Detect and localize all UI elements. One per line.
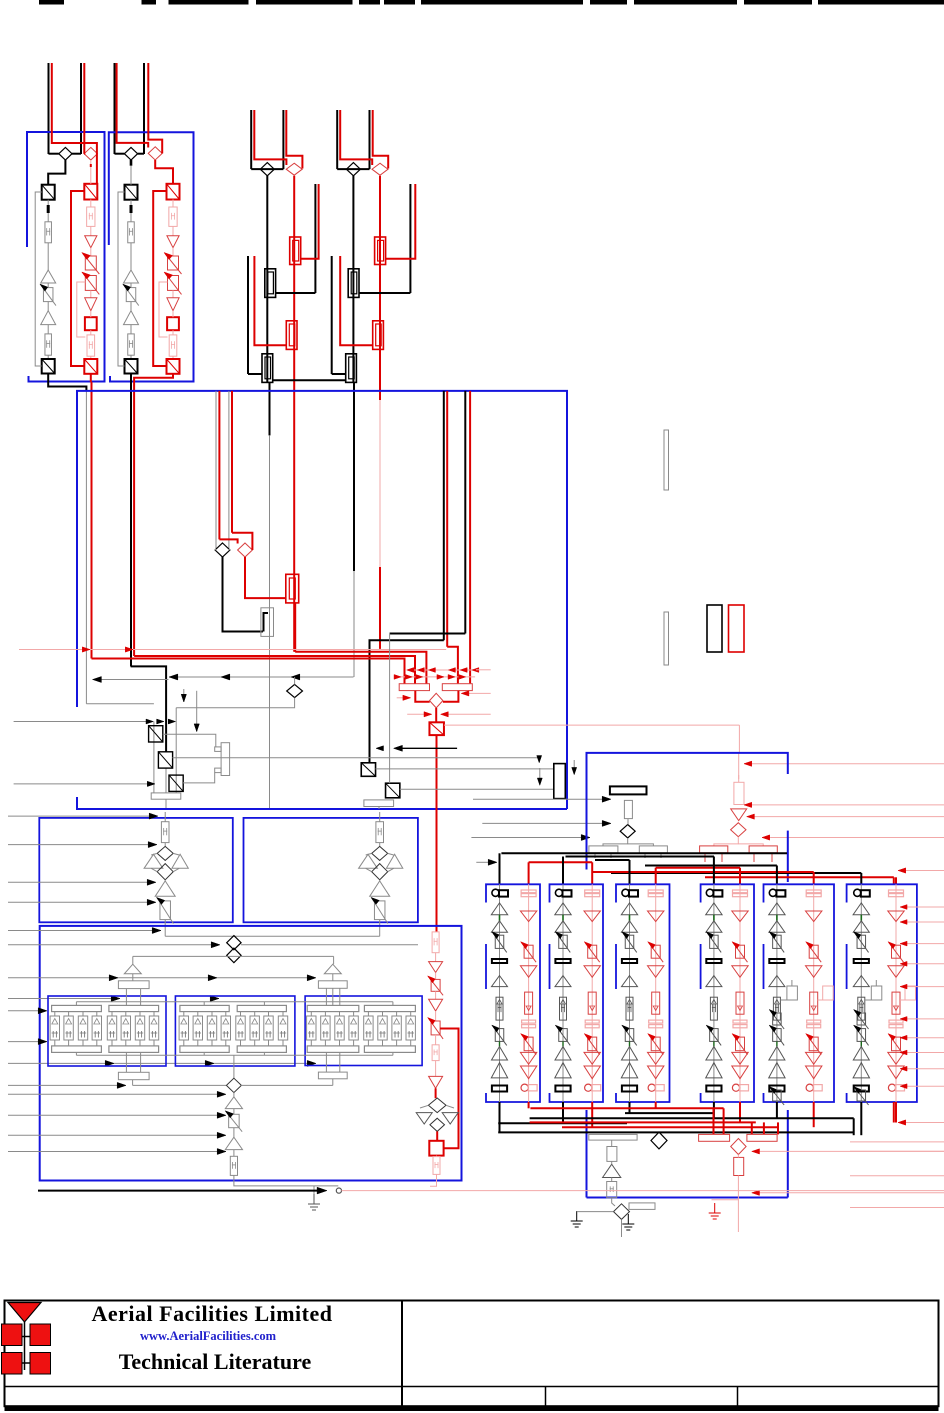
svg-text:Technical Literature: Technical Literature [119,1349,312,1374]
svg-text:www.AerialFacilities.com: www.AerialFacilities.com [140,1329,277,1343]
svg-text:Aerial Facilities Limited: Aerial Facilities Limited [92,1301,333,1326]
